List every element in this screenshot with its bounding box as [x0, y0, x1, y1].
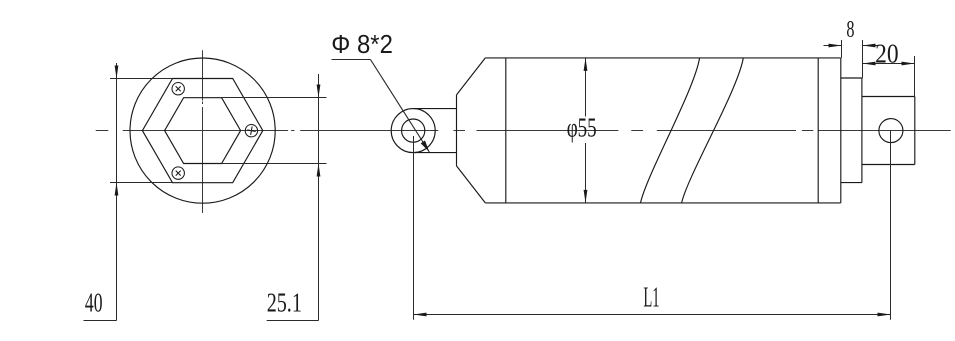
L1 left extension line (from eye center) — [413, 136, 415, 320]
dimension 20 extension line — [914, 56, 916, 97]
dimension 40 extension lines — [110, 79, 173, 183]
body S-curve left — [641, 58, 700, 203]
screw top-left — [172, 83, 184, 95]
dimension 25.1 line — [267, 74, 319, 321]
dimension L1 arrowheads — [414, 313, 427, 317]
dimension 8 line right part — [863, 45, 879, 47]
svg-text:Φ 8*2: Φ 8*2 — [331, 29, 393, 59]
collar right face — [861, 78, 863, 183]
main horizontal centerline (shared axis) — [96, 130, 951, 132]
svg-text:φ55: φ55 — [567, 113, 597, 143]
label Φ8*2 leader line — [370, 59, 429, 152]
rod end block bottom edge — [862, 164, 915, 166]
body S-curve right — [682, 58, 744, 203]
screw bottom-left — [172, 167, 184, 179]
screw right — [245, 125, 257, 137]
dimension L1 line — [414, 314, 891, 316]
svg-text:40: 40 — [85, 288, 103, 318]
body right face — [840, 58, 842, 203]
svg-text:25.1: 25.1 — [267, 288, 302, 318]
dimension 25.1 extension lines — [222, 98, 327, 164]
L1 right extension line (from rod end hole center) — [890, 131, 892, 320]
inner hexagon — [165, 98, 241, 164]
body top edge — [485, 57, 841, 59]
cap/body boundary line — [505, 58, 507, 203]
clevis neck tangent lines — [413, 109, 456, 153]
dimension 40 line — [84, 63, 117, 321]
outer hexagon — [142, 79, 262, 183]
rod end block top edge — [862, 96, 915, 98]
front cap top chamfer — [457, 58, 486, 95]
dimension 40 arrowheads — [115, 66, 119, 79]
dimension 20 line — [863, 63, 915, 65]
clevis eye inner circle (hole Φ8) — [402, 119, 425, 142]
label Φ8*2 leader arrowhead — [421, 140, 430, 152]
dimension φ55 arrowheads — [584, 58, 588, 71]
front cap face — [456, 95, 458, 166]
svg-text:L1: L1 — [643, 282, 659, 314]
clevis eye outer circle — [391, 109, 435, 153]
dimension 20 arrowheads — [863, 62, 876, 66]
dimension φ55 line — [585, 58, 587, 203]
front cap bottom chamfer — [457, 166, 486, 203]
rod end hole — [879, 119, 903, 143]
collar bottom edge — [841, 182, 862, 184]
end-view outer circle — [130, 58, 275, 203]
collar top edge — [841, 77, 862, 79]
dimension 8 line left part — [824, 45, 842, 47]
svg-text:20: 20 — [875, 38, 899, 68]
dimension 25.1 arrowheads — [317, 85, 321, 98]
dimension 8 arrowheads — [829, 44, 842, 48]
dimension 8 extension lines — [842, 40, 863, 78]
label Φ8*2 leader underline — [332, 59, 371, 61]
left view vertical centerline — [202, 50, 204, 213]
rod end block right face — [914, 97, 916, 165]
body bottom edge — [485, 202, 841, 204]
svg-text:8: 8 — [846, 17, 854, 43]
body end-cap internal line — [817, 58, 819, 203]
